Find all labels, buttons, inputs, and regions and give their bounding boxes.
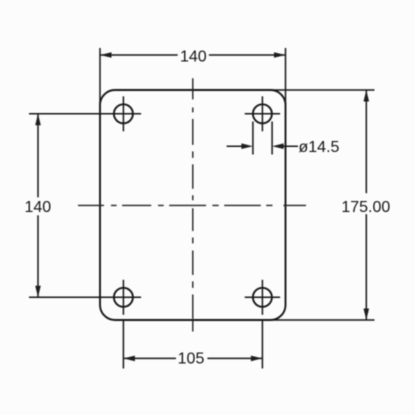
hole bottom-right center mark horizontal bbox=[245, 296, 280, 298]
right dimension 175.00 extension line top bbox=[270, 89, 375, 91]
hole bottom-left center mark vertical bbox=[122, 280, 124, 315]
svg-text:175.00: 175.00 bbox=[341, 199, 390, 216]
right dimension 175.00 line lower segment bbox=[365, 214, 367, 320]
bottom dimension 105 line right segment bbox=[207, 357, 262, 359]
top dimension 140 line left segment bbox=[100, 54, 178, 56]
hole top-left bbox=[114, 104, 133, 123]
hole top-right center mark horizontal bbox=[245, 113, 280, 115]
vertical centerline bbox=[192, 78, 194, 331]
hole top-left center mark vertical bbox=[122, 96, 124, 131]
plate outline bbox=[100, 90, 286, 320]
top dimension arrow right bbox=[274, 52, 286, 58]
right dimension 175.00 line upper segment bbox=[365, 90, 367, 193]
svg-text:ø14.5: ø14.5 bbox=[299, 139, 340, 156]
hole bottom-left center mark horizontal merged with extension line bbox=[29, 296, 141, 298]
hole bottom-right center mark vertical bbox=[261, 280, 263, 315]
hole diameter leader left bbox=[227, 145, 244, 147]
svg-text:140: 140 bbox=[24, 199, 51, 216]
hole top-right center mark vertical bbox=[261, 96, 263, 131]
left dimension arrow up bbox=[35, 114, 41, 126]
top dimension 140 line right segment bbox=[209, 54, 286, 56]
horizontal centerline bbox=[78, 204, 306, 206]
left dimension arrow down bbox=[35, 286, 41, 298]
top dimension 140 extension line left bbox=[99, 48, 101, 105]
hole top-left center mark horizontal merged with extension line bbox=[29, 113, 141, 115]
hole bottom-right bbox=[253, 288, 272, 307]
hole diameter dimension extension line right bbox=[271, 122, 273, 155]
hole diameter arrow pointing right bbox=[241, 143, 253, 149]
right dimension arrow down bbox=[364, 309, 370, 321]
bottom dimension arrow left bbox=[123, 356, 134, 362]
top dimension 140 extension line right bbox=[285, 48, 287, 105]
hole diameter leader right bbox=[281, 145, 298, 147]
bottom dimension 105 line left segment bbox=[123, 357, 176, 359]
svg-text:140: 140 bbox=[180, 49, 207, 66]
hole top-right bbox=[253, 104, 272, 123]
left dimension 140 line upper segment bbox=[37, 114, 39, 198]
top dimension arrow left bbox=[100, 52, 112, 58]
bottom dimension 105 extension line left bbox=[122, 320, 124, 369]
hole diameter arrow pointing left bbox=[272, 143, 284, 149]
right dimension arrow up bbox=[364, 90, 370, 102]
hole diameter dimension extension line left bbox=[252, 122, 254, 155]
bottom dimension 105 extension line right bbox=[261, 320, 263, 369]
bottom dimension arrow right bbox=[251, 356, 263, 362]
right dimension 175.00 extension line bottom bbox=[270, 319, 375, 321]
left dimension 140 line lower segment bbox=[37, 215, 39, 297]
hole bottom-left bbox=[114, 288, 133, 307]
svg-text:105: 105 bbox=[178, 351, 205, 368]
